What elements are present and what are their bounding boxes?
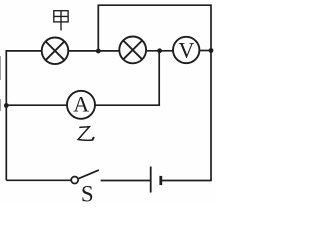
lamp L1 (甲)	[42, 38, 69, 65]
scan artifact left edge lower	[0, 99, 1, 111]
wire voltmeter to right vertical	[199, 50, 211, 52]
wire left vertical	[5, 51, 7, 180]
battery long plate	[150, 167, 152, 193]
wire ammeter branch left	[6, 104, 67, 106]
voltmeter V circle	[173, 37, 199, 63]
svg-text:S: S	[81, 181, 94, 206]
wire ammeter to right riser	[95, 104, 159, 106]
switch S circle	[71, 177, 78, 184]
svg-text:A: A	[73, 92, 89, 117]
node J1 junction dot (between lamps)	[96, 49, 101, 54]
node C junction dot (right vertical)	[209, 48, 214, 53]
label 甲 (lamp L1 name)	[54, 11, 68, 31]
wire lamp L2 to node B	[146, 50, 173, 52]
lamp L2	[119, 37, 146, 64]
wire top bypass	[98, 5, 211, 180]
svg-text:V: V	[178, 37, 194, 62]
ammeter A circle	[67, 91, 95, 119]
node B junction dot (lamp2 / voltmeter / riser)	[157, 48, 162, 53]
wire battery to right vertical	[162, 180, 212, 182]
node D junction dot (left vertical / ammeter branch)	[4, 103, 9, 108]
wire riser up to node B	[158, 51, 160, 106]
battery short plate	[159, 176, 162, 185]
wire switch to battery	[101, 180, 150, 182]
label 乙 (ammeter graph name)	[78, 127, 92, 141]
scan artifact left edge upper	[0, 56, 1, 80]
wire left to lamp L1	[6, 50, 42, 52]
switch S blade	[78, 170, 99, 179]
wire lamp L1 to lamp L2	[68, 50, 119, 52]
label 乙 hook	[92, 137, 94, 141]
wire bottom left to switch	[6, 179, 71, 181]
